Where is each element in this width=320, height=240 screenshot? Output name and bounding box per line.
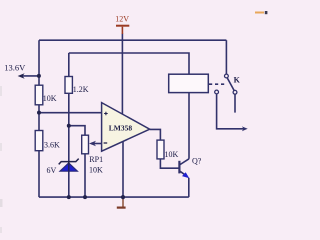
svg-text:10K: 10K (165, 150, 179, 159)
svg-text:1.2K: 1.2K (73, 85, 89, 94)
potentiometer RP1 body (82, 135, 89, 154)
wire 12V drop to opamp V+ (121, 34, 123, 115)
potentiometer RP1 wiper wire (91, 143, 102, 145)
switch K NO contact circle (233, 90, 237, 94)
wire 10K to base (160, 159, 179, 168)
wire 13.6V tap (21, 75, 39, 77)
node dot zener bottom (67, 195, 71, 199)
potentiometer RP1 wiper arrowhead (89, 141, 96, 147)
node dot RP1 bottom (83, 195, 87, 199)
transistor Q collector diagonal (179, 159, 189, 165)
wire top rail (39, 39, 226, 41)
artifact gray mark left edge 1 (0, 86, 2, 96)
transistor Q emitter diagonal (179, 171, 186, 176)
artifact gray mark left edge 2 (0, 143, 2, 151)
power 12V bar (116, 25, 129, 27)
zener diode 6V cathode bar (59, 159, 79, 165)
wire relay coil lead to collector (188, 74, 190, 159)
node dot divider junction (37, 111, 41, 115)
op-amp plus sign (104, 112, 108, 116)
svg-text:13.6V: 13.6V (4, 63, 26, 73)
node dot ground junction (121, 195, 125, 199)
power 12V stub (121, 27, 123, 34)
switch K NC contact circle (215, 90, 219, 94)
svg-text:3.6K: 3.6K (44, 141, 60, 150)
op-amp minus sign (104, 142, 108, 144)
arrowhead 13.6V input (18, 73, 25, 79)
artifact gray mark left edge 3 (0, 199, 3, 207)
wire bottom rail (39, 196, 189, 198)
wire plus input (39, 112, 102, 114)
svg-text:Q?: Q? (192, 157, 202, 166)
resistor R 10K upper-left (35, 85, 43, 105)
wire switch NC to load (217, 94, 245, 129)
ground bar (117, 207, 126, 209)
wire opamp V- drop (122, 142, 124, 198)
wire switch NO stub (234, 94, 236, 112)
wire switch drop (225, 40, 227, 74)
artifact gray mark left edge 4 (0, 227, 2, 233)
resistor R 1.2K (65, 77, 72, 94)
wire RP1 bottom lead (84, 154, 86, 197)
wire output to 10K (150, 129, 161, 140)
relay coil box (169, 74, 209, 92)
resistor R 10K base (157, 140, 164, 159)
artifact dark dot top right (265, 11, 268, 14)
transistor Q base bar (178, 161, 180, 174)
zener diode lead through triangle (68, 162, 70, 172)
op-amp U1 LM358 triangle (102, 103, 150, 152)
ground stub (122, 197, 124, 207)
transistor Q emitter drop (188, 178, 190, 197)
arrowhead load output (242, 126, 248, 131)
node dot zener RP1 branch (67, 124, 71, 128)
svg-text:10K: 10K (89, 165, 103, 174)
dashed link relay to switch (209, 83, 225, 85)
node dot 13.6V tap (37, 74, 41, 78)
svg-text:LM358: LM358 (109, 124, 133, 133)
wire left rail (38, 40, 40, 197)
svg-text:10K: 10K (43, 94, 57, 103)
svg-text:6V: 6V (47, 166, 57, 175)
resistor R 3.6K (35, 131, 43, 151)
zener diode 6V triangle (60, 163, 77, 171)
wire branch to RP1 (69, 126, 85, 136)
wire 1.2K zener vertical (68, 53, 70, 197)
svg-text:12V: 12V (115, 15, 129, 24)
switch K blade (227, 78, 234, 91)
switch K common contact circle (225, 74, 229, 78)
svg-text:K: K (234, 76, 241, 85)
wire second rail to relay (69, 53, 189, 74)
transistor Q emitter arrowhead (182, 172, 189, 178)
svg-text:RP1: RP1 (89, 155, 103, 164)
artifact orange dash top right (255, 12, 264, 14)
